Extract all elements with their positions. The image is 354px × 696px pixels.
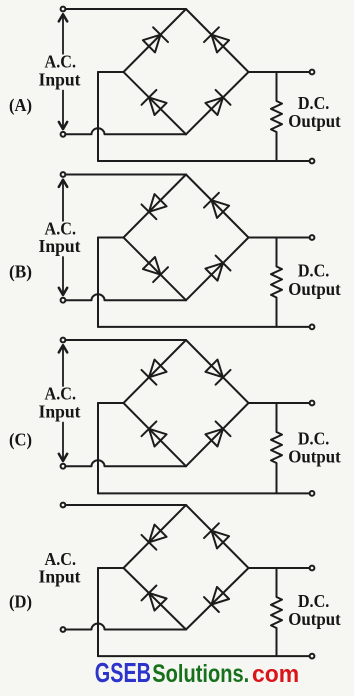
wire: bridge arm bottom-left, circuit A — [124, 72, 187, 134]
wire: bottom rail to D.C. bottom terminal, circuit B — [98, 326, 310, 328]
wire: bridge right node to D.C. top terminal, circuit C — [249, 402, 310, 404]
wire: A.C. bottom terminal to crossover hop, circuit A — [65, 133, 91, 135]
wire: bridge left node to corner, circuit B — [98, 237, 124, 239]
svg-text:A.C.: A.C. — [45, 384, 77, 404]
D.C. output terminal (top) circuit C — [310, 401, 315, 406]
svg-text:GSEB: GSEB — [95, 657, 151, 688]
A.C. input terminal (bottom) circuit D — [61, 627, 66, 632]
A.C. polarity arrow (double-headed), circuit A — [59, 14, 67, 129]
text: A.C. Input label, circuit A — [39, 51, 81, 89]
wire: bridge arm top-right, circuit A — [186, 9, 249, 72]
wire: bridge arm top-left, circuit C — [124, 340, 187, 403]
wire: bridge arm top-left, circuit A — [124, 9, 187, 72]
wire: bridge arm bottom-right, circuit D — [186, 568, 249, 630]
svg-text:Solutions.: Solutions. — [152, 661, 249, 688]
wire: bottom rail to D.C. bottom terminal, circuit A — [98, 160, 310, 162]
svg-text:D.C.: D.C. — [298, 428, 330, 448]
diode BR of bridge, circuit C — [205, 429, 223, 447]
wire: bridge arm top-right, circuit C — [186, 340, 249, 403]
watermark: GSEBSolutions.com — [95, 657, 299, 688]
diode TL of bridge, circuit A — [143, 35, 161, 53]
diode TL of bridge, circuit D — [149, 525, 167, 543]
crossover hop (wire jump), circuit B — [92, 294, 105, 300]
crossover hop (wire jump), circuit C — [92, 460, 105, 466]
svg-text:D.C.: D.C. — [298, 93, 330, 113]
diode TL of bridge, circuit C — [149, 360, 167, 378]
wire: A.C. top terminal to bridge top node, circuit B — [65, 174, 186, 176]
svg-text:com: com — [252, 661, 299, 688]
A.C. input terminal (bottom) circuit B — [61, 298, 66, 303]
svg-text:D.C.: D.C. — [298, 260, 330, 280]
wire: A.C. top terminal to bridge top node, circuit C — [65, 339, 186, 341]
resistor (load), circuit B — [271, 238, 282, 327]
diode TR of bridge, circuit C — [205, 360, 223, 378]
text: D.C. Output label, circuit C — [288, 428, 341, 466]
crossover hop (wire jump), circuit A — [92, 128, 105, 134]
A.C. input terminal (top) circuit A — [61, 7, 66, 12]
wire: bridge arm bottom-left, circuit B — [124, 238, 187, 301]
diode BL of bridge, circuit B — [143, 257, 161, 275]
text: D.C. Output label, circuit A — [288, 93, 341, 131]
diode TR of bridge, circuit D — [212, 531, 230, 549]
D.C. output terminal (bottom) circuit C — [310, 491, 315, 496]
wire: hop to bridge bottom node, circuit C — [105, 465, 187, 467]
wire: bridge arm bottom-right, circuit C — [186, 403, 249, 466]
resistor (load), circuit C — [271, 403, 282, 493]
text: D.C. Output label, circuit B — [288, 260, 341, 298]
wire: bridge right node to D.C. top terminal, circuit D — [249, 567, 310, 569]
svg-text:Input: Input — [39, 567, 81, 587]
A.C. input terminal (top) circuit D — [61, 503, 66, 508]
wire: bridge left node to corner, circuit A — [98, 71, 124, 73]
A.C. polarity arrow (double-headed), circuit B — [59, 180, 67, 295]
wire: corner down to bottom rail, circuit C — [97, 403, 99, 493]
wire: bottom rail to D.C. bottom terminal, circuit C — [98, 492, 310, 494]
wire: bridge arm top-left, circuit B — [124, 175, 187, 238]
D.C. output terminal (top) circuit B — [310, 235, 315, 240]
svg-text:A.C.: A.C. — [45, 51, 77, 71]
wire: A.C. bottom terminal to crossover hop, circuit D — [65, 629, 91, 631]
resistor (load), circuit D — [271, 568, 282, 656]
wire: bridge arm bottom-left, circuit D — [124, 568, 187, 630]
wire: hop to bridge bottom node, circuit D — [105, 629, 187, 631]
diode BL of bridge, circuit C — [149, 429, 167, 447]
svg-text:Input: Input — [39, 402, 81, 422]
wire: bridge arm bottom-left, circuit C — [124, 403, 187, 466]
svg-text:Output: Output — [288, 111, 341, 131]
svg-text:D.C.: D.C. — [298, 591, 330, 611]
wire: A.C. bottom terminal to crossover hop, circuit B — [65, 299, 91, 301]
svg-text:(B): (B) — [9, 262, 32, 283]
wire: corner down to bottom rail, circuit B — [97, 238, 99, 327]
wire: bridge arm top-right, circuit D — [186, 505, 249, 568]
crossover hop (wire jump), circuit D — [92, 624, 105, 630]
svg-text:Input: Input — [39, 236, 81, 256]
wire: corner down to bottom rail, circuit A — [97, 72, 99, 161]
wire: A.C. top terminal to bridge top node, circuit D — [65, 504, 186, 506]
wire: bridge arm bottom-right, circuit B — [186, 238, 249, 301]
wire: hop to bridge bottom node, circuit B — [105, 299, 187, 301]
wire: corner down to bottom rail, circuit D — [97, 568, 99, 656]
D.C. output terminal (bottom) circuit D — [310, 654, 315, 659]
D.C. output terminal (top) circuit A — [310, 70, 315, 75]
wire: A.C. top terminal to bridge top node, circuit A — [65, 8, 186, 10]
wire: bridge right node to D.C. top terminal, circuit A — [249, 71, 310, 73]
diode TR of bridge, circuit A — [212, 35, 230, 53]
wire: bridge arm top-left, circuit D — [124, 505, 187, 568]
diode TR of bridge, circuit B — [212, 200, 230, 218]
D.C. output terminal (bottom) circuit A — [310, 159, 315, 164]
A.C. polarity arrow (double-headed), circuit C — [59, 345, 67, 461]
wire: bridge left node to corner, circuit D — [98, 567, 124, 569]
svg-text:Input: Input — [39, 70, 81, 90]
svg-text:(A): (A) — [9, 95, 32, 116]
text: A.C. Input label, circuit C — [39, 384, 81, 422]
D.C. output terminal (top) circuit D — [310, 566, 315, 571]
wire: hop to bridge bottom node, circuit A — [105, 133, 187, 135]
wire: bridge arm bottom-right, circuit A — [186, 72, 249, 134]
diode BL of bridge, circuit A — [149, 97, 167, 115]
wire: bottom rail to D.C. bottom terminal, circuit D — [98, 655, 310, 657]
wire: bridge left node to corner, circuit C — [98, 402, 124, 404]
svg-text:(C): (C) — [9, 430, 32, 451]
D.C. output terminal (bottom) circuit B — [310, 325, 315, 330]
svg-text:Output: Output — [288, 446, 341, 466]
resistor (load), circuit A — [271, 72, 282, 161]
A.C. input terminal (bottom) circuit A — [61, 132, 66, 137]
diode BR of bridge, circuit B — [205, 263, 223, 281]
svg-text:(D): (D) — [9, 592, 32, 613]
diode BL of bridge, circuit D — [149, 593, 167, 611]
svg-text:Output: Output — [288, 609, 341, 629]
wire: bridge arm top-right, circuit B — [186, 175, 249, 238]
diode BR of bridge, circuit A — [205, 97, 223, 115]
text: A.C. Input label, circuit D — [39, 549, 81, 587]
A.C. input terminal (bottom) circuit C — [61, 464, 66, 469]
diode TL of bridge, circuit B — [149, 194, 167, 212]
wire: bridge right node to D.C. top terminal, circuit B — [249, 237, 310, 239]
A.C. input terminal (top) circuit C — [61, 338, 66, 343]
diode BR of bridge, circuit D — [212, 587, 230, 605]
text: A.C. Input label, circuit B — [39, 218, 81, 256]
wire: A.C. bottom terminal to crossover hop, circuit C — [65, 465, 91, 467]
svg-text:Output: Output — [288, 279, 341, 299]
text: D.C. Output label, circuit D — [288, 591, 341, 629]
A.C. input terminal (top) circuit B — [61, 172, 66, 177]
